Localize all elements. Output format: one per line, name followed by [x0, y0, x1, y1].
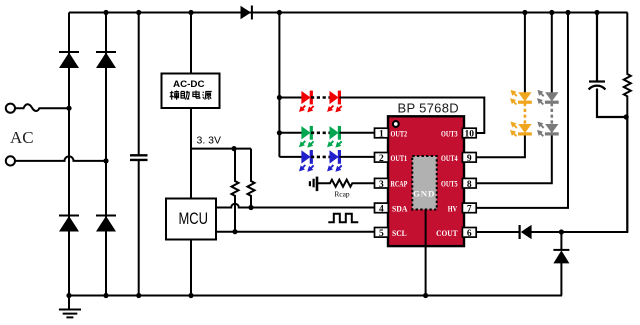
- svg-text:AC-DC: AC-DC: [173, 79, 205, 89]
- wire SCL line: [216, 231, 375, 233]
- pin 6 box: [462, 228, 476, 240]
- node top rail junction bridge-right: [103, 10, 108, 15]
- LED string gray (vertical): [538, 13, 559, 137]
- diode D3 bridge bottom-left: [59, 215, 79, 232]
- LED green 1: [300, 126, 314, 146]
- wire red string to pin10 OUT3: [340, 98, 485, 134]
- pin 4 box: [375, 203, 389, 215]
- svg-text:8: 8: [467, 180, 472, 190]
- wire pin6 COUT: [476, 117, 627, 232]
- ground: [59, 296, 81, 318]
- LED gray n: [538, 122, 559, 136]
- diode D7: [553, 232, 569, 296]
- LED red n: [328, 91, 342, 112]
- svg-text:7: 7: [467, 205, 472, 215]
- bottom rail (ground net): [69, 295, 562, 297]
- resistor R3 output: [624, 13, 631, 233]
- top rail: [69, 12, 628, 14]
- LED gray 1: [538, 91, 559, 105]
- wire bridge right column: [105, 13, 107, 296]
- diode D6: [519, 225, 532, 239]
- node COUT junction D7: [559, 229, 564, 234]
- node top rail junction AC-DC: [188, 10, 193, 15]
- svg-text:OUT3: OUT3: [441, 130, 458, 139]
- wire green string to pin1 OUT2: [340, 132, 375, 134]
- LED string green (row): [279, 126, 374, 146]
- wire red string feed: [279, 97, 302, 99]
- node bottom rail junction ground: [66, 293, 71, 298]
- svg-text:HV: HV: [448, 204, 457, 213]
- node top rail junction gray string: [549, 10, 554, 15]
- resistor Rcap: [318, 180, 375, 187]
- wire pin9 to yellow string: [476, 134, 525, 157]
- LED yellow 1: [511, 91, 532, 105]
- wire AC-DC column: [190, 13, 192, 296]
- diode D2 bridge top-right: [96, 51, 116, 68]
- resistor R1 pullup SCL: [232, 149, 239, 232]
- diode D1 bridge top-left: [59, 51, 79, 68]
- wire dashed blue series: [311, 156, 330, 159]
- pin 7 box: [462, 203, 476, 215]
- svg-text:1: 1: [379, 130, 384, 140]
- resistor R2 pullup SDA: [248, 149, 255, 208]
- pin1 marker dot: [393, 121, 399, 127]
- AC terminal top: [6, 104, 69, 113]
- LED string blue (row): [279, 151, 374, 172]
- wire dashed yellow series: [524, 103, 527, 124]
- LED green n: [328, 126, 342, 146]
- LED blue 1: [300, 151, 314, 172]
- node 3.3V junction R1: [231, 146, 236, 151]
- wire pin8 to gray string: [476, 134, 552, 183]
- wire dashed green series: [311, 132, 330, 135]
- svg-text:5: 5: [379, 229, 384, 239]
- ground (sideways, Rcap): [310, 177, 317, 192]
- node bottom rail junction MCU: [188, 293, 193, 298]
- wire blue string feed: [279, 156, 302, 158]
- wire 3.3V line: [191, 148, 251, 150]
- pin 8 box: [462, 178, 476, 190]
- svg-text:3: 3: [379, 180, 384, 190]
- svg-text:GND: GND: [413, 189, 435, 199]
- svg-text:10: 10: [465, 130, 475, 140]
- svg-text:SCL: SCL: [392, 229, 407, 238]
- aux supply CJK label 辅助电源 (drawn): [170, 91, 212, 100]
- square wave symbol: [328, 214, 358, 223]
- node bottom rail junction bulk cap: [136, 293, 141, 298]
- pin 3 box: [375, 178, 389, 190]
- LED blue n: [328, 151, 342, 172]
- node top rail junction HV: [565, 10, 570, 15]
- LED red 1: [300, 91, 314, 112]
- pin 1 box: [375, 128, 389, 140]
- node green string junction: [277, 130, 282, 135]
- svg-text:AC: AC: [10, 128, 34, 147]
- diode D4 bridge bottom-right: [96, 215, 116, 232]
- capacitor C2 output: [589, 13, 627, 118]
- svg-text:OUT5: OUT5: [441, 180, 458, 189]
- node C2-R3 junction: [624, 114, 629, 119]
- LED string yellow (vertical): [511, 13, 532, 137]
- svg-text:3. 3V: 3. 3V: [197, 135, 222, 147]
- diode D5 top rail: [241, 6, 253, 20]
- wire pin7 HV to rail: [476, 13, 568, 208]
- node bottom rail junction bridge-right: [103, 293, 108, 298]
- wire bulk cap column: [138, 13, 140, 296]
- node SDA junction R2: [248, 205, 253, 210]
- wire green string feed: [279, 132, 302, 134]
- pin 10 box: [462, 128, 476, 140]
- MCU box: [166, 199, 216, 240]
- wire dashed red series: [311, 96, 330, 99]
- wire SDA line: [216, 204, 375, 208]
- svg-text:9: 9: [467, 154, 472, 164]
- pin 2 box: [375, 153, 389, 165]
- svg-text:OUT2: OUT2: [391, 130, 408, 139]
- LED string red (row): [279, 91, 484, 133]
- node SCL junction R1: [232, 229, 237, 234]
- svg-text:6: 6: [467, 229, 472, 239]
- svg-text:MCU: MCU: [178, 209, 208, 228]
- svg-text:BP 5768D: BP 5768D: [398, 101, 459, 116]
- wire blue string to pin2 OUT1: [340, 156, 375, 158]
- node AC neutral junction: [103, 158, 108, 163]
- node top rail junction LED feed: [277, 10, 282, 15]
- node AC live junction: [66, 106, 71, 111]
- wire gray string from rail: [551, 13, 553, 93]
- node bottom rail junction chip GND: [423, 293, 428, 298]
- wire yellow string from rail: [524, 13, 526, 93]
- svg-text:4: 4: [379, 205, 384, 215]
- node top rail junction yellow string: [522, 10, 527, 15]
- pin 5 box: [375, 228, 389, 240]
- wire dashed gray series: [550, 103, 553, 124]
- GND pad: [412, 156, 436, 210]
- node top rail junction bulk cap: [136, 10, 141, 15]
- pin 9 box: [462, 153, 476, 165]
- op chip BP5768D body: [388, 116, 464, 246]
- wire GND down: [425, 209, 427, 296]
- capacitor C1: [130, 155, 148, 160]
- node red string junction: [277, 95, 282, 100]
- svg-text:Rcap: Rcap: [334, 190, 349, 199]
- LED yellow n: [511, 122, 532, 136]
- node top rail junction C2: [594, 10, 599, 15]
- svg-text:OUT4: OUT4: [441, 154, 458, 163]
- svg-text:SDA: SDA: [392, 204, 407, 213]
- svg-text:COUT: COUT: [436, 229, 458, 238]
- wire bridge left column: [68, 13, 70, 296]
- svg-text:2: 2: [379, 154, 384, 164]
- wire LED feed column: [278, 13, 280, 157]
- AC-DC aux supply box: [162, 74, 220, 109]
- svg-text:RCAP: RCAP: [391, 180, 408, 189]
- AC terminal bottom: [6, 156, 106, 165]
- svg-text:OUT1: OUT1: [391, 154, 408, 163]
